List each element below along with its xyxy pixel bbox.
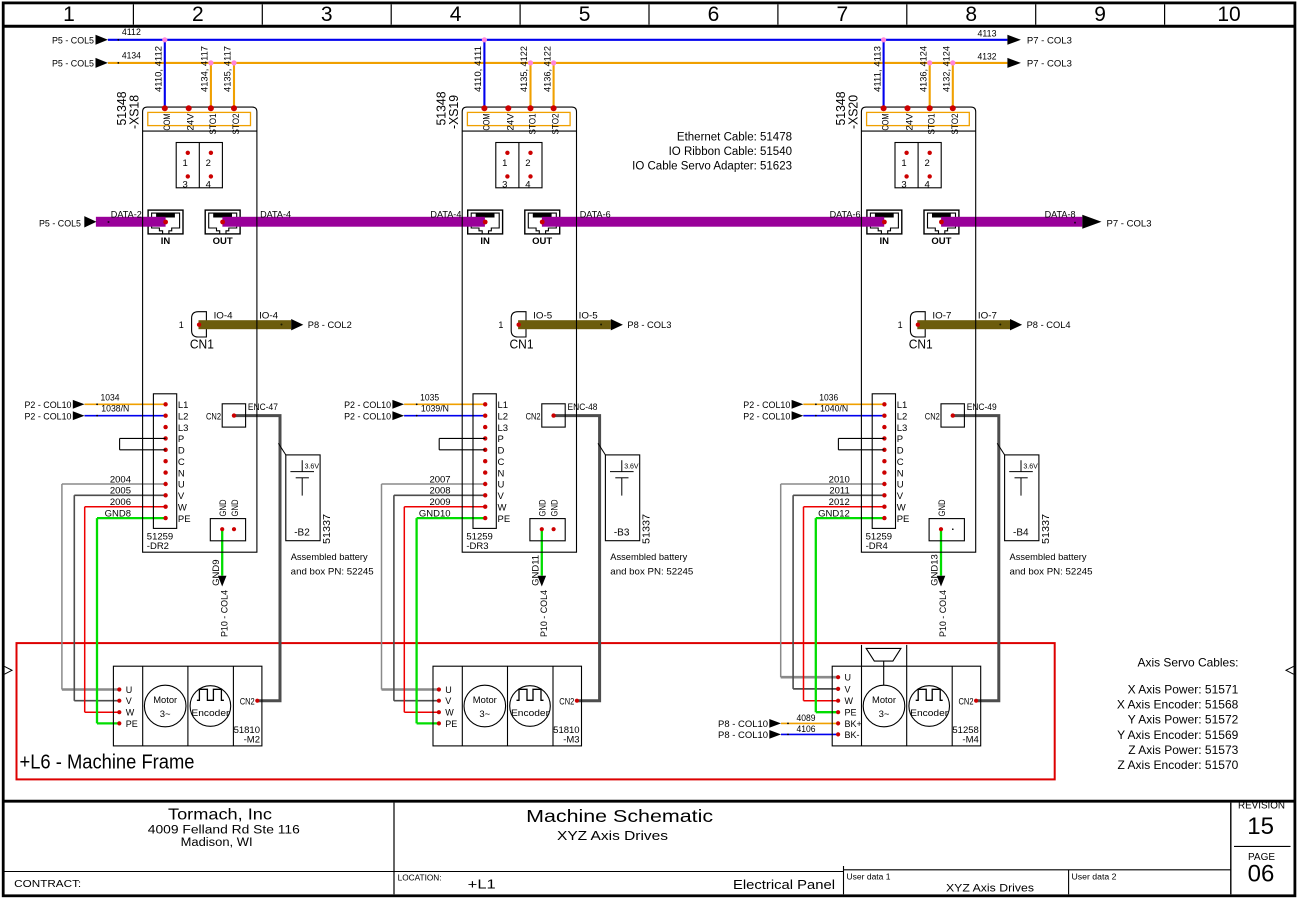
svg-text:and box PN: 52245: and box PN: 52245 <box>610 567 693 578</box>
ethernet data bus DATA (purple) <box>96 217 166 227</box>
svg-text:Y Axis Encoder: 51569: Y Axis Encoder: 51569 <box>1117 728 1239 742</box>
ethernet jack pin IN <box>882 220 887 225</box>
svg-text:D: D <box>178 446 185 457</box>
pin CN1-1 <box>517 323 521 327</box>
svg-text:COM: COM <box>481 113 492 130</box>
svg-text:Z Axis Encoder: 51570: Z Axis Encoder: 51570 <box>1118 758 1239 772</box>
svg-text:BK+: BK+ <box>845 719 862 729</box>
terminal pin U <box>882 482 886 486</box>
jumper P-D <box>120 437 166 439</box>
wire 2009 (W phase) <box>404 506 485 508</box>
svg-text:DATA-6: DATA-6 <box>830 209 861 220</box>
terminal strip 51259 -DR4 <box>872 394 895 529</box>
svg-text:ENC-49: ENC-49 <box>967 402 997 413</box>
svg-text:9: 9 <box>1094 3 1106 26</box>
wire STO orange bus <box>108 62 1008 64</box>
svg-text:IN: IN <box>480 236 490 247</box>
svg-text:-B3: -B3 <box>614 527 630 538</box>
svg-text:REVISION: REVISION <box>1238 801 1285 812</box>
svg-text:4134: 4134 <box>122 50 141 61</box>
svg-text:U: U <box>897 480 904 491</box>
battery leader line <box>598 443 605 455</box>
svg-text:LOCATION:: LOCATION: <box>398 874 442 883</box>
ethernet jack pin OUT <box>540 220 545 225</box>
svg-text:3: 3 <box>502 179 507 190</box>
svg-text:Motor: Motor <box>872 695 896 706</box>
terminal pin L1 <box>163 402 167 406</box>
source arrow P5 - COL5 (orange bus) <box>96 58 108 68</box>
svg-text:-DR3: -DR3 <box>466 541 488 552</box>
destination arrow P7 - COL3 (data bus) <box>1082 215 1101 229</box>
junction dot orange bus STO1 <box>927 60 932 65</box>
svg-text:P8 - COL10: P8 - COL10 <box>718 730 768 741</box>
svg-text:IO Ribbon Cable: 51540: IO Ribbon Cable: 51540 <box>669 146 792 158</box>
svg-text:L3: L3 <box>498 423 509 434</box>
ground terminal box <box>929 519 964 541</box>
wire 4135, 4117 STO2 drop <box>233 63 235 108</box>
svg-text:PE: PE <box>445 719 457 729</box>
svg-text:4: 4 <box>450 3 462 26</box>
terminal pin C <box>882 459 886 463</box>
svg-text:Assembled battery: Assembled battery <box>1010 552 1087 563</box>
wire GND12 (PE phase) <box>816 517 885 519</box>
svg-text:W: W <box>126 708 135 718</box>
svg-text:OUT: OUT <box>213 236 233 247</box>
pin STO1 <box>208 105 214 111</box>
junction dot orange bus STO2 <box>950 60 955 65</box>
motor pin V <box>437 699 441 703</box>
user data divider 2 <box>1068 870 1070 895</box>
svg-text:IO Cable Servo Adapter: 51623: IO Cable Servo Adapter: 51623 <box>632 161 792 173</box>
motor pin CN2 <box>255 699 259 703</box>
source arrow P2 - COL10 (L1) <box>792 400 804 409</box>
drive top strip separator <box>861 130 975 132</box>
svg-text:6: 6 <box>708 3 720 26</box>
terminal strip 51259 -DR2 <box>153 394 176 529</box>
svg-text:V: V <box>845 684 851 694</box>
ruler divider 1 <box>132 4 134 24</box>
svg-text:PE: PE <box>498 514 511 525</box>
destination arrow P8 - COL4 <box>1010 319 1022 330</box>
encoder circle <box>190 686 231 727</box>
motor pin PE <box>836 710 840 714</box>
svg-text:3: 3 <box>901 179 906 190</box>
wire GND10 (PE phase) <box>417 517 486 519</box>
svg-text:4132: 4132 <box>978 51 997 62</box>
svg-text:GND: GND <box>230 499 241 516</box>
motor circle <box>144 685 186 727</box>
svg-text:1: 1 <box>63 3 75 26</box>
svg-text:1: 1 <box>898 320 903 330</box>
terminal pin N <box>882 470 886 474</box>
destination arrow P7 - COL3 (blue bus) <box>1007 35 1021 45</box>
ethernet jack pin OUT <box>939 220 944 225</box>
battery 51337 -B3 <box>605 455 639 541</box>
svg-text:PE: PE <box>126 719 138 729</box>
svg-text:1038/N: 1038/N <box>101 403 129 414</box>
motor pin PE <box>117 721 121 725</box>
servo drive body 51348 -XS20 <box>861 107 975 552</box>
ruler divider 3 <box>390 4 392 24</box>
motor pin V <box>836 687 840 691</box>
terminal pin V <box>882 493 886 497</box>
svg-text:IO-4: IO-4 <box>214 311 233 322</box>
wire 1040/N L2 feed <box>803 415 884 417</box>
svg-text:P: P <box>498 434 504 445</box>
terminal highlight rectangle <box>148 112 251 125</box>
svg-text:N: N <box>897 468 904 479</box>
svg-text:06: 06 <box>1248 861 1275 888</box>
wire 2004 (U phase) <box>62 483 166 485</box>
svg-text:V: V <box>897 491 904 502</box>
junction dot blue bus <box>162 37 167 42</box>
terminal pin D <box>483 448 487 452</box>
svg-text:5: 5 <box>579 3 591 26</box>
source arrow P8 - COL10 (BK+) <box>769 719 781 728</box>
svg-text:4111, 4113: 4111, 4113 <box>872 46 883 92</box>
svg-text:OUT: OUT <box>532 236 552 247</box>
motor pin W <box>836 699 840 703</box>
svg-text:1: 1 <box>183 158 188 169</box>
svg-text:-XS20: -XS20 <box>845 95 860 129</box>
source arrow P5 - COL5 (data bus) <box>84 216 96 227</box>
svg-text:Y Axis Power: 51572: Y Axis Power: 51572 <box>1128 713 1239 727</box>
pin 3 <box>186 174 190 178</box>
IO cable IO-5 <box>518 320 611 329</box>
wire 4106 BK- feed <box>781 733 838 735</box>
ethernet jack IN <box>148 210 183 234</box>
svg-text:3.6V: 3.6V <box>305 464 320 471</box>
svg-text:ENC-48: ENC-48 <box>568 402 598 413</box>
motor pin W <box>117 710 121 714</box>
pin 4 <box>528 174 532 178</box>
source arrow P2 - COL10 (L2) <box>73 411 85 420</box>
svg-text:2012: 2012 <box>829 497 850 508</box>
svg-text:2007: 2007 <box>429 474 450 485</box>
svg-text:P10 - COL4: P10 - COL4 <box>539 590 550 637</box>
svg-text:DATA-6: DATA-6 <box>580 209 611 220</box>
column ruler band line <box>5 25 1294 28</box>
terminal pin W <box>163 505 167 509</box>
battery leader line <box>997 443 1004 455</box>
destination arrow P8 - COL2 <box>291 319 303 330</box>
wire 2005 (V phase) <box>74 494 165 496</box>
ground terminal box <box>530 519 565 541</box>
terminal pin L1 <box>882 402 886 406</box>
svg-text:P7 - COL3: P7 - COL3 <box>1027 59 1072 70</box>
svg-text:Tormach, Inc: Tormach, Inc <box>168 807 272 824</box>
ethernet jack OUT <box>924 210 959 234</box>
terminal pin L2 <box>483 414 487 418</box>
pin STO2 <box>551 105 557 111</box>
pin 24V <box>186 105 192 111</box>
wire 4132, 4124 STO2 drop <box>952 63 954 108</box>
wire 4110, 4111 COM drop <box>483 40 485 109</box>
motor pin CN2 <box>575 699 579 703</box>
terminal pin C <box>483 459 487 463</box>
connector CN2 (encoder out) <box>941 404 964 427</box>
pin 24V <box>905 105 911 111</box>
ground terminal box <box>210 519 245 541</box>
svg-text:1: 1 <box>901 158 906 169</box>
svg-text:4110, 4111: 4110, 4111 <box>473 46 484 92</box>
ethernet jack pin OUT <box>220 220 225 225</box>
jumper P-D <box>439 437 485 439</box>
IO cable IO-4 <box>199 320 292 329</box>
terminal pin L3 <box>163 425 167 429</box>
user data divider 1 <box>843 866 845 894</box>
svg-text:CONTRACT:: CONTRACT: <box>14 878 81 890</box>
cable dot <box>600 324 602 326</box>
pin STO2 <box>231 105 237 111</box>
battery leader line <box>278 443 285 455</box>
svg-text:P: P <box>178 434 184 445</box>
wire GND11 ground pigtail <box>541 529 543 576</box>
motor 51258 -M4 <box>832 666 981 746</box>
junction dot orange bus STO1 <box>208 60 213 65</box>
configuration pin box 1 2 3 4 <box>496 143 542 188</box>
svg-text:P8 - COL10: P8 - COL10 <box>718 719 768 730</box>
wire 4136, 4122 STO2 drop <box>553 63 555 108</box>
terminal pin PE <box>163 516 167 520</box>
svg-text:DATA-4: DATA-4 <box>430 209 461 220</box>
svg-text:Axis Servo Cables:: Axis Servo Cables: <box>1138 655 1239 669</box>
svg-text:DATA-4: DATA-4 <box>260 209 291 220</box>
svg-text:2011: 2011 <box>829 486 849 497</box>
motor pin CN2 <box>974 699 978 703</box>
svg-text:XYZ Axis Drives: XYZ Axis Drives <box>557 829 668 843</box>
svg-text:L1: L1 <box>178 400 189 411</box>
svg-text:IN: IN <box>161 236 171 247</box>
pin GND right <box>232 527 236 531</box>
svg-text:3: 3 <box>183 179 188 190</box>
machine frame boundary +L6 <box>17 643 1055 779</box>
ruler divider 6 <box>777 4 779 24</box>
pin GND right <box>552 527 556 531</box>
source arrow P2 - COL10 (L1) <box>392 400 404 409</box>
pin COM <box>162 105 168 111</box>
svg-text:2010: 2010 <box>829 474 850 485</box>
svg-text:3~: 3~ <box>479 709 490 720</box>
svg-text:L3: L3 <box>178 423 189 434</box>
terminal pin PE <box>882 516 886 520</box>
battery 51337 -B2 <box>286 455 320 541</box>
svg-text:L3: L3 <box>897 423 908 434</box>
svg-text:P7 - COL3: P7 - COL3 <box>1027 36 1072 47</box>
battery 51337 -B4 <box>1005 455 1039 541</box>
encoder cable ENC-47 <box>234 416 280 701</box>
pin GND left <box>939 527 943 531</box>
wire dot L2 <box>416 415 418 417</box>
wire dot L2 <box>96 415 98 417</box>
svg-text:CN1: CN1 <box>510 336 534 351</box>
pin 2 <box>928 151 932 155</box>
pin 1 <box>505 151 509 155</box>
motor circle <box>464 685 506 727</box>
svg-text:GND11: GND11 <box>531 555 542 586</box>
svg-text:-M2: -M2 <box>244 734 260 745</box>
motor pin U <box>437 687 441 691</box>
terminal pin N <box>483 470 487 474</box>
svg-text:C: C <box>897 457 904 468</box>
svg-text:Encoder: Encoder <box>910 708 948 719</box>
wire 2006 (W phase) <box>85 506 166 508</box>
title block top line <box>5 800 1294 803</box>
ethernet jack pin IN <box>163 220 168 225</box>
wire dot L1 <box>96 403 98 405</box>
svg-text:GND: GND <box>538 499 549 516</box>
encoder circle <box>909 686 950 727</box>
svg-text:2: 2 <box>192 3 204 26</box>
svg-text:PE: PE <box>897 514 910 525</box>
svg-text:Motor: Motor <box>473 695 497 706</box>
encoder cable ENC-49 <box>953 416 999 701</box>
svg-text:4132, 4124: 4132, 4124 <box>942 46 953 92</box>
motor 51810 -M3 <box>433 666 582 746</box>
pin 4 <box>209 174 213 178</box>
svg-text:4136, 4122: 4136, 4122 <box>542 46 553 92</box>
svg-text:P5 - COL5: P5 - COL5 <box>52 35 94 46</box>
terminal strip 51259 -DR3 <box>473 394 496 529</box>
connector CN1 <box>511 312 526 337</box>
svg-text:U: U <box>178 480 185 491</box>
svg-text:and box PN: 52245: and box PN: 52245 <box>1010 567 1093 578</box>
title block divider right <box>1230 803 1232 895</box>
svg-text:U: U <box>126 685 133 695</box>
svg-text:1: 1 <box>502 158 507 169</box>
svg-text:4136, 4124: 4136, 4124 <box>918 46 929 92</box>
svg-text:CN2: CN2 <box>206 411 221 422</box>
pin CN1-1 <box>916 323 920 327</box>
cable dot <box>999 324 1001 326</box>
terminal pin P <box>483 436 487 440</box>
wire 2010 (U phase) <box>781 483 885 485</box>
svg-text:51337: 51337 <box>322 514 333 544</box>
brake housing <box>861 645 863 666</box>
wire GND9 ground pigtail <box>221 529 223 576</box>
svg-text:2006: 2006 <box>110 497 131 508</box>
svg-text:-B4: -B4 <box>1013 527 1029 538</box>
wire dot L2 <box>815 415 817 417</box>
svg-text:3~: 3~ <box>879 709 890 720</box>
terminal pin PE <box>483 516 487 520</box>
terminal pin L2 <box>882 414 886 418</box>
page link chevron left <box>5 666 13 674</box>
ethernet jack OUT <box>525 210 560 234</box>
connector CN1 <box>192 312 207 337</box>
svg-text:24V: 24V <box>905 113 916 131</box>
pin STO1 <box>927 105 933 111</box>
svg-text:-M4: -M4 <box>962 734 978 745</box>
svg-text:GND12: GND12 <box>818 509 850 520</box>
ruler divider 7 <box>906 4 908 24</box>
ethernet jack IN <box>468 210 503 234</box>
svg-text:3.6V: 3.6V <box>624 464 639 471</box>
ruler divider 9 <box>1164 4 1166 24</box>
svg-text:CN1: CN1 <box>190 336 214 351</box>
motor pin BK- <box>836 732 840 736</box>
svg-text:15: 15 <box>1247 813 1274 840</box>
svg-text:IO-4: IO-4 <box>259 311 278 322</box>
svg-text:4113: 4113 <box>978 28 997 39</box>
terminal pin U <box>163 482 167 486</box>
svg-text:GND13: GND13 <box>930 554 941 586</box>
svg-text:10: 10 <box>1217 3 1240 26</box>
svg-text:P8 - COL3: P8 - COL3 <box>627 320 671 331</box>
svg-text:L2: L2 <box>178 411 189 422</box>
servo drive body 51348 -XS18 <box>143 107 257 552</box>
svg-text:3.6V: 3.6V <box>1023 464 1038 471</box>
svg-text:V: V <box>498 491 505 502</box>
svg-text:CN1: CN1 <box>909 336 933 351</box>
svg-text:IO-7: IO-7 <box>932 311 951 322</box>
destination arrow P8 - COL3 <box>611 319 623 330</box>
encoder cable ENC-48 <box>554 416 600 701</box>
svg-text:P2 - COL10: P2 - COL10 <box>344 411 391 422</box>
terminal pin L1 <box>483 402 487 406</box>
terminal highlight rectangle <box>467 112 570 125</box>
pin 2 <box>209 151 213 155</box>
svg-text:4106: 4106 <box>797 724 816 735</box>
svg-text:1039/N: 1039/N <box>421 403 449 414</box>
motor pin V <box>117 699 121 703</box>
terminal pin W <box>483 505 487 509</box>
pin 4 <box>928 174 932 178</box>
pin COM <box>481 105 487 111</box>
svg-text:DATA-8: DATA-8 <box>1045 209 1076 220</box>
junction dot blue bus <box>482 37 487 42</box>
svg-text:U: U <box>445 685 452 695</box>
svg-text:+L6 - Machine Frame: +L6 - Machine Frame <box>20 752 195 774</box>
svg-text:1035: 1035 <box>420 393 439 404</box>
pin COM <box>881 105 887 111</box>
IO cable IO-7 <box>917 320 1010 329</box>
terminal pin P <box>882 436 886 440</box>
source arrow P2 - COL10 (L2) <box>392 411 404 420</box>
svg-text:Assembled battery: Assembled battery <box>291 552 368 563</box>
svg-text:4110, 4112: 4110, 4112 <box>154 46 165 92</box>
svg-text:L1: L1 <box>498 400 509 411</box>
title block divider left <box>393 803 395 895</box>
svg-text:-M3: -M3 <box>563 734 579 745</box>
svg-text:BK-: BK- <box>845 730 860 740</box>
pin 3 <box>505 174 509 178</box>
motor pin BK+ <box>836 721 840 725</box>
svg-text:24V: 24V <box>505 113 516 131</box>
ethernet jack pin IN <box>483 220 488 225</box>
svg-text:2008: 2008 <box>429 486 450 497</box>
wire 2008 (V phase) <box>394 494 485 496</box>
svg-text:-XS18: -XS18 <box>127 95 142 129</box>
junction dot orange bus STO1 <box>528 60 533 65</box>
svg-text:L1: L1 <box>897 400 908 411</box>
page link chevron right <box>1286 666 1294 674</box>
pin CN2 <box>232 413 236 417</box>
svg-text:CN2: CN2 <box>240 696 255 707</box>
svg-text:GND: GND <box>550 499 561 516</box>
svg-text:51337: 51337 <box>1041 514 1052 544</box>
wire 1038/N L2 feed <box>85 415 166 417</box>
svg-text:Assembled battery: Assembled battery <box>610 552 687 563</box>
svg-text:4: 4 <box>206 179 211 190</box>
svg-text:U: U <box>498 480 505 491</box>
svg-text:COM: COM <box>162 113 173 130</box>
svg-text:V: V <box>445 696 451 706</box>
svg-text:Machine Schematic: Machine Schematic <box>526 806 713 826</box>
terminal pin V <box>483 493 487 497</box>
svg-text:51337: 51337 <box>642 514 653 544</box>
svg-text:N: N <box>178 468 185 479</box>
